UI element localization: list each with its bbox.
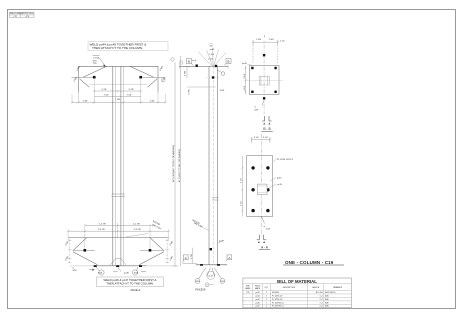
svg-text:5 7/8: 5 7/8 <box>191 253 193 259</box>
svg-text:PL 1/2X6 1/2X1'-2: PL 1/2X6 1/2X1'-2 <box>277 159 294 161</box>
svg-text:47'-6 (OUT TO OUT OF PLATES): 47'-6 (OUT TO OUT OF PLATES) <box>178 149 181 182</box>
svg-text:5: 5 <box>206 285 207 287</box>
svg-text:A36: A36 <box>325 301 328 304</box>
svg-text:1 1/8: 1 1/8 <box>115 99 121 101</box>
extension lines above bottom bracket <box>68 223 168 250</box>
svg-text:7 1/4: 7 1/4 <box>127 95 133 97</box>
right leader pc mark <box>218 241 222 243</box>
weld below A-A <box>262 217 265 224</box>
hole callout circle right of top bracket <box>161 78 165 82</box>
svg-text:1 3/4: 1 3/4 <box>269 39 275 41</box>
svg-text:1 3/4: 1 3/4 <box>256 39 262 41</box>
bolt below plate <box>263 97 265 99</box>
bill of material table <box>243 278 352 308</box>
bolt arrow right <box>139 76 142 79</box>
right leaders A-A <box>267 159 277 189</box>
svg-text:THEN ATTACH IT TO THE COLUMN.: THEN ATTACH IT TO THE COLUMN. <box>106 282 154 286</box>
svg-text:1'-4: 1'-4 <box>320 306 323 308</box>
section cut flags bottom A-A <box>257 235 266 243</box>
data rows <box>246 291 335 308</box>
gusset leaders above base <box>110 258 126 265</box>
svg-text:1'-4: 1'-4 <box>320 302 323 304</box>
weld symbol leader top <box>93 56 106 66</box>
svg-text:A36: A36 <box>325 305 328 308</box>
svg-text:C19: C19 <box>246 292 249 294</box>
plate outline <box>249 66 279 95</box>
svg-text:pc46: pc46 <box>256 302 260 304</box>
top dim <box>252 40 279 64</box>
top cap line <box>180 66 229 68</box>
dim row 2 under top bracket <box>94 96 141 98</box>
svg-text:1'-2: 1'-2 <box>320 299 323 301</box>
vertical center line A-A <box>260 134 262 237</box>
svg-text:A36: A36 <box>325 294 328 297</box>
dim row 3 under top bracket <box>71 101 166 103</box>
bolt bottom shaft <box>210 248 212 250</box>
bolts A-A <box>251 166 269 212</box>
section B-B <box>242 36 285 131</box>
svg-text:B - B: B - B <box>263 127 271 131</box>
bolt arrow left <box>93 76 96 79</box>
column shaft FACE A <box>113 66 121 265</box>
column shaft FACE B <box>209 67 217 265</box>
bolt gage lines bottom <box>73 249 164 251</box>
svg-text:pc39: pc39 <box>256 292 260 294</box>
svg-text:MARK: MARK <box>255 287 261 290</box>
svg-text:C19: C19 <box>14 16 17 18</box>
leader fan top <box>198 48 226 67</box>
svg-text:THEN ATTACH IT TO THE COLUMN.: THEN ATTACH IT TO THE COLUMN. <box>92 46 143 50</box>
svg-text:ONE-COLUMN: ONE-COLUMN <box>9 13 21 15</box>
svg-text:A - A: A - A <box>261 245 269 249</box>
left dim near top <box>183 67 191 79</box>
svg-text:PL 1/2X9X1'-4: PL 1/2X9X1'-4 <box>272 306 283 308</box>
left dim A-A <box>241 156 243 217</box>
corner bolts <box>251 67 253 69</box>
svg-text:REMARKS: REMARKS <box>333 286 343 289</box>
drawing title <box>283 260 344 265</box>
left dim bottom <box>183 248 197 264</box>
column headers <box>245 285 343 289</box>
bolt gage lines with arrows <box>72 76 166 78</box>
svg-text:ONE - COLUMN - C19: ONE - COLUMN - C19 <box>285 260 334 265</box>
member size leader FACE A <box>126 221 162 237</box>
extension lines below top bracket <box>72 78 165 103</box>
bolt arrow bottom left <box>84 249 87 252</box>
svg-text:1'-2 7/8: 1'-2 7/8 <box>98 224 106 226</box>
svg-text:A36: A36 <box>325 298 328 301</box>
svg-text:B: B <box>188 59 190 63</box>
svg-text:pc45: pc45 <box>242 63 248 65</box>
svg-text:FACE B: FACE B <box>195 288 205 292</box>
svg-text:46'-5 3/4 (OUT TO OUT OF ANGLE: 46'-5 3/4 (OUT TO OUT OF ANGLES) <box>172 145 175 182</box>
plate horizontal centerline <box>245 79 283 81</box>
svg-text:1 3/4: 1 3/4 <box>83 100 89 102</box>
svg-text:1: 1 <box>266 306 267 308</box>
section A flag bottom left <box>183 255 189 263</box>
bolt on shaft <box>212 76 214 78</box>
svg-text:PL 1/2X6 1/2: PL 1/2X6 1/2 <box>272 295 282 297</box>
svg-text:LENGTH: LENGTH <box>312 287 320 289</box>
FACE A view <box>65 42 183 292</box>
vertical center line <box>263 45 265 115</box>
svg-text:A: A <box>228 256 230 260</box>
section A flag bottom right <box>226 255 232 262</box>
dim line y87 <box>187 86 216 88</box>
mid-column piece mark ticks <box>112 194 126 197</box>
FACE B view <box>180 44 232 292</box>
bolt arrow bottom right <box>149 249 152 252</box>
svg-text:pc47: pc47 <box>256 306 260 308</box>
svg-text:7 1/4: 7 1/4 <box>104 95 110 97</box>
svg-text:A: A <box>185 256 187 260</box>
dim row 1 under top bracket <box>93 90 142 92</box>
svg-text:W12X30: W12X30 <box>272 292 279 294</box>
svg-text:5 7/8: 5 7/8 <box>129 89 135 91</box>
svg-text:1: 1 <box>266 292 267 294</box>
svg-text:TYP.: TYP. <box>93 63 98 65</box>
section B flag left <box>187 59 194 66</box>
svg-text:5 7/8: 5 7/8 <box>102 89 108 91</box>
mini table top-left <box>10 12 35 17</box>
svg-text:w 5/16: w 5/16 <box>93 57 100 59</box>
section A-A <box>241 134 294 250</box>
weld note box bottom <box>97 277 164 287</box>
svg-text:pc44: pc44 <box>256 295 260 297</box>
base clips FACE B <box>200 264 203 266</box>
svg-text:1'-3 7/8: 1'-3 7/8 <box>133 229 141 231</box>
left dim B-B <box>245 66 247 95</box>
svg-text:DESCRIPTION: DESCRIPTION <box>283 287 296 289</box>
section cut flags bottom B-B <box>262 116 271 125</box>
svg-text:pc46: pc46 <box>124 273 130 275</box>
svg-text:5 7/8: 5 7/8 <box>185 70 187 76</box>
hidden line through shaft top <box>207 77 220 79</box>
svg-text:1 3/4: 1 3/4 <box>150 100 156 102</box>
svg-text:B: B <box>228 59 230 63</box>
center line dashed <box>212 67 214 265</box>
svg-text:1: 1 <box>266 299 267 301</box>
column section inside plate <box>259 76 269 85</box>
svg-text:1'-3 7/8: 1'-3 7/8 <box>97 229 105 231</box>
svg-text:1'-2 7/8: 1'-2 7/8 <box>132 224 140 226</box>
plate outline A-A <box>247 156 273 217</box>
svg-text:A572-GR.50: A572-GR.50 <box>325 291 335 294</box>
svg-text:46'-5 3/4: 46'-5 3/4 <box>316 292 323 294</box>
base clip rects <box>94 265 97 267</box>
svg-text:5 7/8: 5 7/8 <box>188 89 190 95</box>
bolt above plate <box>263 54 265 56</box>
right leader weld top <box>218 70 225 75</box>
svg-text:47'-6: 47'-6 <box>26 16 30 18</box>
svg-text:APPROX.LGTH: APPROX.LGTH <box>21 12 34 15</box>
weld leaders below base FACE B <box>195 268 225 284</box>
diagonal leader with size text <box>199 226 209 231</box>
top bracket outline <box>79 66 158 92</box>
mid-column tick FACE B <box>212 198 219 200</box>
end centerlines bottom bracket <box>70 239 168 263</box>
svg-text:1: 1 <box>266 302 267 304</box>
svg-text:1'-2: 1'-2 <box>320 295 323 297</box>
weld note below <box>262 101 264 106</box>
svg-text:1: 1 <box>266 295 267 297</box>
svg-text:pc39: pc39 <box>219 241 225 243</box>
svg-text:PL 1/2X6 1/2: PL 1/2X6 1/2 <box>272 299 282 301</box>
tick pair left of column top <box>192 60 196 62</box>
bottom bracket outline <box>68 238 168 266</box>
column section inside A-A <box>257 184 267 195</box>
svg-text:BILL OF MATERIAL: BILL OF MATERIAL <box>277 279 317 284</box>
svg-text:FACE A: FACE A <box>131 288 141 292</box>
bottom bracket dim row B <box>67 230 169 232</box>
svg-text:pc45: pc45 <box>256 299 260 301</box>
left pc leader <box>248 65 253 68</box>
bracket flange bottom line <box>89 83 147 85</box>
base plate line FACE B <box>196 264 227 266</box>
weld note box top <box>88 42 168 51</box>
svg-text:PL 1/2X9X1'-4: PL 1/2X9X1'-4 <box>272 302 283 304</box>
weld leaders below base <box>89 267 146 275</box>
bottom bracket dim row A <box>85 225 155 227</box>
long vertical dim lines right of FACE A <box>171 56 183 266</box>
section B flag right <box>225 59 232 66</box>
svg-text:MARK: MARK <box>245 287 251 290</box>
bolt squares on cap <box>196 65 198 67</box>
